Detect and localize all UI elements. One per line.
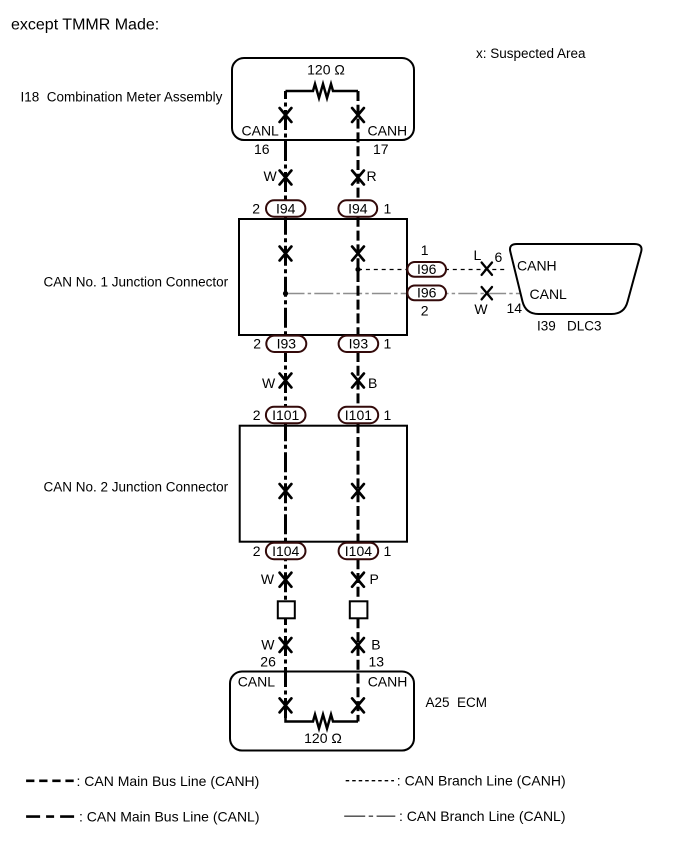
suspected point X (left wire, ECM) — [280, 698, 292, 712]
connector I101 pin 1 — [339, 407, 392, 423]
suspected point X (left wire, above ECM) — [280, 638, 292, 652]
wire color label W — [261, 571, 275, 587]
svg-text:P: P — [370, 571, 379, 587]
svg-text:1: 1 — [384, 336, 392, 352]
svg-text:I101: I101 — [272, 407, 299, 423]
svg-text:1: 1 — [421, 242, 429, 258]
svg-text:L: L — [474, 247, 482, 263]
svg-text:B: B — [368, 375, 377, 391]
svg-text:CANH: CANH — [517, 257, 557, 273]
wire CANH main bus (I104 to square connector) — [357, 559, 360, 601]
suspected point X (left wire, meter) — [280, 108, 292, 122]
wire CANL main bus (square connector to ECM resistor) — [284, 618, 287, 721]
connector I93 pin 1 — [339, 336, 392, 352]
wire color label W (CANL branch) — [474, 301, 488, 317]
wire color label W — [262, 375, 276, 391]
wire CANL main bus (through junction connector 1) — [284, 217, 287, 336]
suspected point X (CANL branch) — [482, 287, 492, 299]
svg-text:I101: I101 — [345, 407, 372, 423]
wire color label P — [370, 571, 379, 587]
svg-text:W: W — [261, 637, 275, 653]
pin 13 (ECM CANH) — [369, 654, 385, 670]
wire CANH main bus (through junction connector 2) — [357, 423, 360, 543]
connector I104 pin 1 — [339, 543, 392, 559]
pin 16 (meter CANL) — [254, 141, 270, 157]
suspected point X (left wire, above I94) — [280, 171, 292, 185]
svg-text:2: 2 — [421, 303, 429, 319]
node label CANL (meter) — [242, 123, 280, 139]
component box I18 Combination Meter Assembly — [21, 58, 415, 140]
wire color label L — [474, 247, 482, 263]
branch wire CANL to DLC3 — [286, 293, 522, 295]
svg-text:W: W — [264, 168, 278, 184]
svg-text:CAN No. 1 Junction Connector: CAN No. 1 Junction Connector — [44, 275, 229, 290]
svg-text:17: 17 — [373, 141, 389, 157]
svg-text:I94: I94 — [276, 200, 296, 216]
svg-text:I96: I96 — [417, 261, 437, 277]
component box A25 ECM — [230, 672, 487, 751]
wire CANL main bus (through junction connector 2) — [284, 423, 287, 543]
connector I96 pin 2 — [407, 285, 446, 319]
svg-text:CAN No. 2 Junction Connector: CAN No. 2 Junction Connector — [44, 480, 229, 495]
suspected point X (right wire, below I104) — [352, 573, 364, 587]
legend note: suspected area — [476, 46, 586, 61]
svg-text:I104: I104 — [272, 543, 299, 559]
node junction dot CANL branch — [283, 291, 288, 296]
suspected point X (left wire, junction 1) — [280, 247, 292, 261]
suspected point X (left wire, below I104) — [280, 573, 292, 587]
suspected point X (right wire, meter) — [352, 108, 364, 122]
suspected point X (CANH branch) — [482, 263, 492, 275]
svg-text:x: Suspected Area: x: Suspected Area — [476, 46, 586, 61]
connector I104 pin 2 — [253, 543, 306, 559]
suspected point X (right wire, junction 1) — [352, 247, 364, 261]
svg-text:2: 2 — [252, 200, 260, 216]
svg-text:: CAN Main Bus Line (CANL): : CAN Main Bus Line (CANL) — [79, 809, 260, 825]
node junction dot CANH branch — [355, 267, 360, 272]
wire CANL main bus (left, meter box to I94) — [284, 91, 287, 201]
wire CANH main bus (square connector to ECM resistor) — [357, 618, 360, 721]
svg-text:2: 2 — [253, 543, 261, 559]
resistor 120 ohm (ECM) — [286, 704, 359, 746]
svg-text:CANL: CANL — [238, 673, 276, 689]
svg-text:: CAN Branch Line (CANL): : CAN Branch Line (CANL) — [399, 808, 566, 824]
pin 14 (DLC3 CANL) — [507, 300, 523, 316]
svg-text:A25 ECM: A25 ECM — [426, 695, 488, 710]
svg-text:: CAN Main Bus Line (CANH): : CAN Main Bus Line (CANH) — [77, 773, 260, 789]
legend sample: CAN main bus line CANL — [26, 809, 259, 825]
legend sample: CAN branch line CANL — [344, 808, 565, 824]
suspected point X (right wire, above I94) — [352, 171, 364, 185]
svg-text:I104: I104 — [345, 543, 372, 559]
component box CAN No. 2 Junction Connector — [44, 426, 408, 542]
svg-text:I93: I93 — [277, 336, 297, 352]
wire color label R — [367, 168, 377, 184]
node label CANL (ECM) — [238, 673, 276, 689]
svg-text:120 Ω: 120 Ω — [304, 730, 342, 746]
svg-text:I93: I93 — [349, 336, 369, 352]
suspected point X (right wire, I93-I101) — [352, 374, 364, 388]
legend sample: CAN branch line CANH — [346, 773, 566, 789]
svg-text:6: 6 — [495, 249, 503, 265]
svg-text:16: 16 — [254, 141, 270, 157]
svg-text:CANH: CANH — [368, 123, 408, 139]
square connector (right wire) — [350, 601, 368, 618]
svg-text:1: 1 — [384, 407, 392, 423]
suspected point X (right wire, ECM) — [352, 698, 364, 712]
title text — [11, 17, 159, 34]
connector I101 pin 2 — [253, 407, 306, 423]
svg-text:I96: I96 — [417, 285, 437, 301]
svg-text:W: W — [262, 375, 276, 391]
svg-text:: CAN Branch Line (CANH): : CAN Branch Line (CANH) — [397, 773, 566, 789]
svg-text:W: W — [474, 301, 488, 317]
pin 17 (meter CANH) — [373, 141, 389, 157]
svg-text:CANL: CANL — [530, 286, 568, 302]
wire CANL main bus (I104 to square connector) — [284, 559, 287, 601]
node label CANH (meter) — [368, 123, 408, 139]
wire CANH main bus (right, meter box to I94) — [357, 91, 360, 201]
connector I94 pin 1 — [338, 200, 391, 216]
svg-text:1: 1 — [384, 200, 392, 216]
svg-text:26: 26 — [260, 654, 276, 670]
pin 6 (DLC3 CANH) — [495, 249, 503, 265]
wire color label B — [368, 375, 377, 391]
suspected point X (left wire, I93-I101) — [280, 374, 292, 388]
branch wire CANH to DLC3 — [358, 269, 508, 271]
component DLC3 connector I39 — [510, 244, 642, 334]
svg-text:I39 DLC3: I39 DLC3 — [537, 319, 602, 334]
pin 26 (ECM CANL) — [260, 654, 276, 670]
svg-text:1: 1 — [384, 543, 392, 559]
legend sample: CAN main bus line CANH — [26, 773, 259, 789]
wire CANH main bus (through junction connector 1) — [357, 217, 360, 336]
svg-text:except TMMR Made:: except TMMR Made: — [11, 17, 159, 34]
svg-text:14: 14 — [507, 300, 523, 316]
svg-text:I94: I94 — [348, 200, 368, 216]
svg-text:2: 2 — [253, 407, 261, 423]
svg-text:B: B — [371, 637, 380, 653]
wire CANL main bus (I93 to I101) — [284, 352, 287, 407]
connector I93 pin 2 — [253, 336, 306, 352]
resistor 120 ohm (combination meter) — [286, 62, 359, 99]
node label CANH (ECM) — [368, 673, 408, 689]
svg-text:2: 2 — [253, 336, 261, 352]
suspected point X (right wire, junction 2) — [352, 484, 364, 498]
svg-text:R: R — [367, 168, 377, 184]
svg-text:I18 Combination Meter Assembl: I18 Combination Meter Assembly — [21, 90, 223, 105]
wire color label W — [264, 168, 278, 184]
suspected point X (left wire, junction 2) — [280, 484, 292, 498]
svg-text:CANL: CANL — [242, 123, 280, 139]
svg-text:CANH: CANH — [368, 673, 408, 689]
connector I94 pin 2 — [252, 200, 305, 216]
connector I96 pin 1 — [407, 242, 446, 277]
wire color label W — [261, 637, 275, 653]
svg-text:120 Ω: 120 Ω — [307, 62, 345, 78]
square connector (left wire) — [278, 601, 295, 618]
svg-text:W: W — [261, 571, 275, 587]
wire CANH main bus (I93 to I101) — [357, 352, 360, 407]
wire color label B — [371, 637, 380, 653]
suspected point X (right wire, above ECM) — [352, 638, 364, 652]
svg-text:13: 13 — [369, 654, 385, 670]
component box CAN No. 1 Junction Connector — [44, 219, 408, 335]
